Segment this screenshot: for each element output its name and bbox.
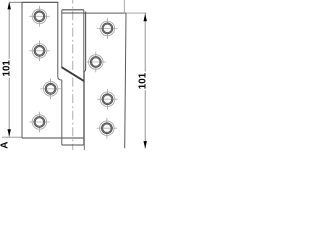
right dimension line upper segment xyxy=(144,13,146,71)
diagonal knuckle junction xyxy=(62,67,85,81)
svg-text:101: 101 xyxy=(1,60,12,77)
right plate hole 1 xyxy=(97,18,118,39)
left plate hole 2 xyxy=(29,41,50,62)
right plate right edge xyxy=(125,13,126,148)
knuckle barrel top edge xyxy=(62,9,84,11)
stub extension line above right plate corner xyxy=(123,0,125,13)
left dimension extension line bottom xyxy=(2,136,22,138)
left dimension line upper segment xyxy=(8,2,10,59)
left dimension arrow down xyxy=(8,129,11,137)
right plate hole 3 xyxy=(97,89,118,110)
left plate bottom edge xyxy=(22,137,84,139)
right plate hole 4 xyxy=(97,118,118,139)
left plate hole 1 xyxy=(29,6,50,27)
knuckle barrel left edge upper xyxy=(61,10,63,68)
right plate top edge xyxy=(84,12,126,14)
svg-text:101: 101 xyxy=(137,72,148,89)
left dimension arrow up xyxy=(8,2,11,9)
left dimension extension line top xyxy=(9,1,22,3)
right plate left edge xyxy=(84,12,85,72)
knuckle barrel bottom cap line xyxy=(62,144,84,146)
right plate left edge lower (merged with barrel edge) xyxy=(83,71,85,150)
left plate hole 3 xyxy=(40,79,61,100)
knuckle barrel left edge lower xyxy=(61,80,63,145)
knuckle barrel right edge xyxy=(83,10,85,145)
left dimension line lower segment xyxy=(8,78,10,137)
right dimension arrow down xyxy=(144,141,147,149)
right dimension extension line top xyxy=(126,12,146,14)
hinge centerline xyxy=(72,0,74,150)
left plate hole 4 xyxy=(29,112,50,133)
right dimension line lower segment xyxy=(144,90,146,148)
left plate right edge with arc into barrel xyxy=(58,2,62,80)
svg-text:A: A xyxy=(0,142,11,149)
right plate hole 2 xyxy=(86,52,107,73)
left plate left edge xyxy=(21,2,23,138)
left plate top edge xyxy=(22,1,58,3)
knuckle barrel top cap line xyxy=(62,12,84,14)
right dimension arrow up xyxy=(144,14,147,22)
